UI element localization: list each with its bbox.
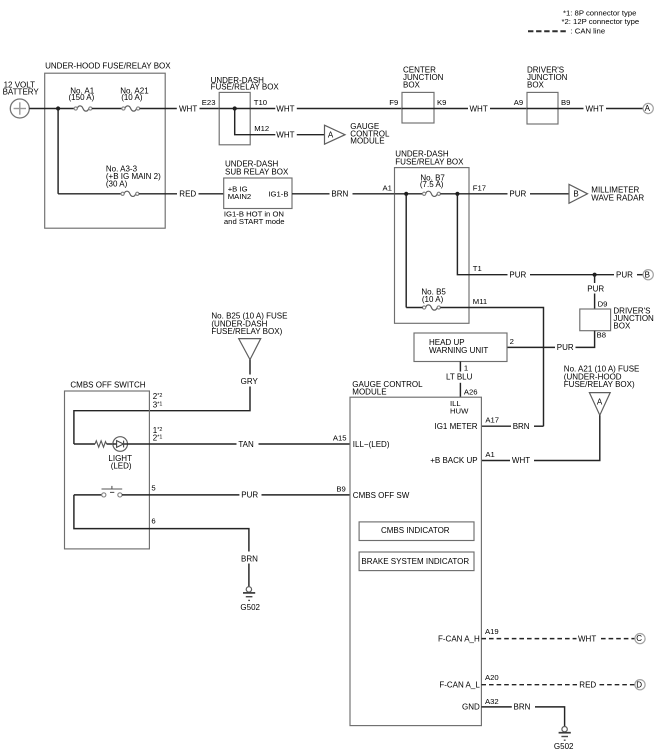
svg-text:B8: B8 [597, 330, 606, 339]
resistor (LED series) [95, 441, 107, 447]
svg-text:CMBS OFF SW: CMBS OFF SW [353, 491, 410, 500]
svg-text:BRN: BRN [241, 554, 258, 563]
svg-text:G502: G502 [240, 603, 260, 612]
wire through box [219, 108, 250, 110]
svg-text:E23: E23 [202, 98, 216, 107]
svg-text:6: 6 [151, 517, 155, 526]
svg-text:B: B [645, 270, 650, 279]
wire fuse B25 down [249, 360, 251, 375]
wire LT BLU to A26 [459, 383, 461, 397]
node A circled [643, 103, 653, 113]
svg-text:BRN: BRN [513, 422, 530, 431]
svg-text:5: 5 [151, 483, 155, 492]
center junction box [402, 66, 444, 123]
connector triangle A to gauge control module [325, 122, 390, 146]
svg-text:BOX: BOX [613, 322, 631, 331]
wire junction down to RED row [57, 109, 59, 194]
wire PUR to radar connector [530, 193, 569, 195]
svg-text:MODULE: MODULE [352, 387, 386, 396]
svg-text:PUR: PUR [616, 270, 633, 279]
svg-text:TAN: TAN [238, 440, 254, 449]
svg-text:CMBS INDICATOR: CMBS INDICATOR [381, 526, 450, 535]
svg-text:*2: 12P connector type: *2: 12P connector type [562, 17, 640, 26]
svg-text:PUR: PUR [557, 343, 574, 352]
svg-text:T1: T1 [473, 264, 482, 273]
fuse No. A3-3 (+B IG MAIN 2) (30 A) [106, 165, 161, 197]
wire BRN to ground G502 [535, 707, 565, 727]
node B circled [643, 270, 653, 280]
battery B1 12 VOLT BATTERY [3, 81, 40, 118]
svg-text:F-CAN A_L: F-CAN A_L [439, 681, 480, 690]
svg-text:WHT: WHT [276, 104, 294, 113]
wire between fuses [92, 108, 122, 110]
driver's junction box (D9/B8) [580, 307, 654, 331]
wire A1 row to fuse B7 [395, 193, 423, 195]
svg-text:1: 1 [464, 364, 468, 373]
wire battery to fuse A1 [29, 108, 74, 110]
svg-text:IG1-B: IG1-B [268, 189, 288, 198]
wire F-CAN L dashed to RED [481, 684, 577, 686]
svg-text:A: A [645, 104, 651, 113]
svg-text:PUR: PUR [509, 190, 526, 199]
svg-text:RED: RED [579, 681, 596, 690]
wire to B5 fuse [406, 307, 422, 309]
wire junction down to D9 [594, 275, 596, 283]
svg-text:3*1: 3*1 [153, 400, 163, 409]
svg-text:CMBS OFF SWITCH: CMBS OFF SWITCH [70, 381, 145, 390]
under-dash fuse/relay box (top) [211, 76, 280, 145]
fuse No. A21 triangle (under-hood) [564, 365, 640, 416]
wire PUR to node B [637, 274, 643, 276]
svg-text:BRAKE SYSTEM INDICATOR: BRAKE SYSTEM INDICATOR [361, 557, 469, 566]
node junction PUR tee [593, 273, 597, 277]
svg-text:FUSE/RELAY BOX): FUSE/RELAY BOX) [564, 380, 635, 389]
svg-text:C: C [636, 634, 642, 643]
wire WHT to driver's junction box A9 [490, 108, 527, 110]
svg-text:GND: GND [462, 703, 480, 712]
wire PUR to gauge module B9 [262, 494, 351, 496]
node junction right of B7 [455, 192, 459, 196]
wire T1 branch from B7 junction [457, 194, 469, 275]
svg-text:B: B [573, 190, 578, 199]
svg-text:WHT: WHT [470, 104, 488, 113]
CMBS indicator box [359, 522, 474, 541]
head up warning unit U2 [414, 333, 507, 362]
brake system indicator box [359, 552, 474, 571]
svg-text:PUR: PUR [587, 284, 604, 293]
svg-text:WARNING UNIT: WARNING UNIT [429, 346, 488, 355]
svg-text:WHT: WHT [578, 634, 596, 643]
svg-text:WHT: WHT [276, 131, 294, 140]
wire fuse A21 to WHT label [140, 108, 177, 110]
switch contacts (push button) [74, 486, 122, 497]
wire dashed RED to node D [600, 684, 635, 686]
svg-text:LT BLU: LT BLU [446, 372, 473, 381]
svg-text:A20: A20 [485, 673, 499, 682]
wire dashed WHT to node C [601, 638, 635, 640]
svg-text:(30 A): (30 A) [106, 180, 128, 189]
svg-text:SUB RELAY BOX: SUB RELAY BOX [225, 168, 289, 177]
svg-text:A17: A17 [485, 416, 499, 425]
node D circled [635, 680, 645, 690]
wire PUR to pin 2 [507, 346, 555, 348]
svg-text:(7.5 A): (7.5 A) [420, 180, 444, 189]
svg-text:BRN: BRN [331, 190, 348, 199]
under-dash sub relay box (+B IG MAIN2 / IG1-B relay) [224, 160, 292, 227]
svg-text:A26: A26 [464, 387, 478, 396]
svg-text:: CAN line: : CAN line [571, 26, 606, 35]
wire to resistor [74, 443, 95, 445]
svg-text:B9: B9 [336, 484, 345, 493]
wire fuse B7 to F17 [440, 193, 469, 195]
svg-text:A1: A1 [485, 450, 494, 459]
svg-text:F9: F9 [389, 98, 398, 107]
wire T1 to PUR [469, 274, 508, 276]
fuse No. B5 (10 A) [421, 288, 446, 311]
wire M11 right and down to A17 [440, 308, 543, 427]
svg-text:M11: M11 [473, 297, 487, 306]
svg-text:BOX: BOX [403, 81, 421, 90]
svg-text:B9: B9 [561, 98, 570, 107]
svg-text:D: D [636, 680, 642, 689]
svg-text:BRN: BRN [514, 703, 531, 712]
wire switch to PUR [122, 494, 239, 496]
svg-text:(150 A): (150 A) [69, 93, 95, 102]
wire F-CAN H dashed to WHT [481, 638, 576, 640]
wire RED to sub relay box [199, 193, 224, 195]
svg-text:ILL−(LED): ILL−(LED) [353, 440, 390, 449]
svg-text:WHT: WHT [179, 104, 197, 113]
wire WHT to node A [606, 108, 643, 110]
node junction left of B7 [404, 192, 408, 196]
svg-text:D9: D9 [598, 300, 608, 309]
wire WHT to center junction box F9 [297, 108, 402, 110]
svg-text:PUR: PUR [241, 491, 258, 500]
wire WHT to under-dash box [200, 108, 220, 110]
wire A1 to WHT [481, 460, 510, 462]
fuse No. B25 triangle (under-dash) [211, 312, 287, 360]
CMBS OFF switch SW1 [65, 381, 150, 549]
wire RED row inside under-hood box [58, 193, 121, 195]
wire A17 to BRN [481, 425, 511, 427]
svg-text:PUR: PUR [509, 270, 526, 279]
svg-text:2: 2 [510, 337, 514, 346]
svg-text:BATTERY: BATTERY [3, 88, 40, 97]
svg-text:+B BACK UP: +B BACK UP [430, 456, 477, 465]
svg-text:GRY: GRY [241, 377, 259, 386]
svg-text:A15: A15 [333, 434, 347, 443]
svg-text:FUSE/RELAY BOX: FUSE/RELAY BOX [211, 83, 280, 92]
wire BRN to under-dash box A1 [353, 193, 395, 195]
svg-text:(10 A): (10 A) [422, 295, 444, 304]
wire TAN to gauge module A15 [259, 443, 351, 445]
fuse No. A1 (150 A) [69, 86, 95, 111]
wire GND to BRN [481, 706, 511, 708]
svg-text:A: A [328, 130, 334, 139]
wire M11 row out of fuse box [405, 194, 407, 308]
svg-text:F17: F17 [473, 183, 486, 192]
wire F17 to PUR [469, 193, 508, 195]
svg-text:(10 A): (10 A) [121, 93, 143, 102]
svg-text:RED: RED [179, 190, 196, 199]
svg-text:F-CAN A_H: F-CAN A_H [438, 634, 480, 643]
svg-text:A9: A9 [514, 98, 523, 107]
wire GRY into switch [74, 387, 250, 445]
node junction battery feed [56, 106, 60, 110]
svg-text:and START mode: and START mode [224, 217, 285, 226]
svg-text:BOX: BOX [527, 81, 545, 90]
fuse No. A21 (10 A) [120, 86, 149, 111]
ground G502 (module) [554, 727, 574, 751]
wire PUR to D9 [594, 294, 596, 310]
svg-text:2*1: 2*1 [153, 434, 163, 443]
legend CAN line sample [528, 30, 567, 32]
wire WHT to connector A [297, 134, 324, 136]
svg-text:HUW: HUW [450, 407, 469, 416]
svg-text:WHT: WHT [586, 104, 604, 113]
svg-text:M12: M12 [254, 124, 269, 133]
node junction inside box [233, 106, 237, 110]
wire BRN to M11 drop [534, 425, 544, 427]
svg-text:A19: A19 [485, 627, 499, 636]
wire BRN to ground [248, 564, 250, 587]
svg-text:K9: K9 [437, 98, 446, 107]
driver's junction box [527, 66, 568, 124]
wire K9 to WHT [402, 108, 468, 110]
svg-text:(LED): (LED) [111, 461, 132, 470]
wire T10 out [250, 108, 275, 110]
connector triangle B to millimeter wave radar [569, 184, 644, 203]
svg-text:G502: G502 [554, 742, 574, 751]
svg-text:T10: T10 [254, 98, 267, 107]
wire IG1-B out to BRN [292, 193, 330, 195]
under-dash fuse/relay box (B7/B5) [395, 150, 470, 324]
gauge control module U1 [350, 380, 481, 726]
svg-text:IG1 METER: IG1 METER [434, 422, 477, 431]
LED lamp (LIGHT) [108, 437, 132, 471]
svg-text:MAIN2: MAIN2 [228, 192, 252, 201]
svg-text:A: A [597, 397, 603, 406]
svg-text:FUSE/RELAY BOX: FUSE/RELAY BOX [395, 158, 464, 167]
svg-text:UNDER-HOOD FUSE/RELAY BOX: UNDER-HOOD FUSE/RELAY BOX [45, 62, 171, 71]
wire switch left leg to pin 6 and ground lead [74, 495, 249, 552]
svg-text:WAVE RADAR: WAVE RADAR [591, 193, 644, 202]
wire LED to TAN [127, 443, 236, 445]
wire resistor to LED [107, 443, 113, 445]
svg-text:FUSE/RELAY BOX): FUSE/RELAY BOX) [211, 327, 282, 336]
wire pin 1 down [459, 362, 461, 372]
wire PUR to node B with junction [530, 274, 614, 276]
node C circled [635, 634, 645, 644]
svg-text:A32: A32 [485, 697, 499, 706]
wire fuse A3-3 to RED label [139, 193, 177, 195]
svg-text:MODULE: MODULE [350, 137, 384, 146]
wire M12 branch down [235, 109, 276, 135]
ground G502 (switch) [240, 587, 260, 612]
svg-text:WHT: WHT [512, 456, 530, 465]
svg-text:A1: A1 [383, 183, 392, 192]
wire B8 down and left to head up warning unit pin 2 [576, 331, 595, 348]
wire WHT up to fuse A21 [534, 415, 600, 460]
wire B9 out [527, 108, 584, 110]
fuse No. B7 (7.5 A) [420, 174, 446, 197]
